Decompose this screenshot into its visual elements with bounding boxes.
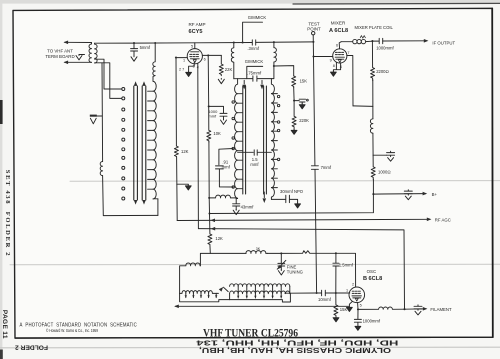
damping resistor over plate coil: [360, 36, 365, 39]
tube V1 RF AMP 6CY5 envelope: [187, 49, 202, 64]
capacitor C .91mmf padder: [216, 149, 234, 188]
resistor R 2200ohm: [371, 41, 375, 81]
node: choke left on bus: [233, 41, 235, 43]
wire: filament bus: [198, 229, 404, 310]
wire: long left return line down: [101, 63, 104, 162]
svg-text:22K: 22K: [225, 67, 233, 72]
arrow to VHF ant (upper): [64, 41, 69, 45]
resistor R 10K: [207, 106, 211, 142]
svg-text:5: 5: [360, 303, 362, 307]
transformer T1 primary winding: [89, 43, 92, 63]
V2 plate pin6 lead: [339, 42, 341, 49]
wire: rail up to RF strip bottom: [157, 199, 159, 216]
wire: IF output with arrow: [383, 40, 427, 42]
V2 grid pin9 lead: [314, 56, 333, 58]
capacitor C 5mmf top lead: [133, 43, 135, 48]
svg-text:1: 1: [183, 59, 185, 63]
resistor R 1000ohm: [371, 155, 375, 180]
joint arrow on filament bus: [211, 227, 216, 231]
coil L RF strip top choke: [153, 43, 155, 76]
top edge dark line right half: [293, 2, 500, 5]
svg-text:RF AMP: RF AMP: [188, 22, 205, 27]
svg-text:GIMMICK: GIMMICK: [248, 15, 267, 20]
capacitor C 1.5mmf between strips: [238, 150, 272, 156]
node 1000mmf bypass tap: [208, 105, 210, 107]
svg-text:SET 438 FOLDER 2: SET 438 FOLDER 2: [4, 170, 11, 256]
svg-text:12K: 12K: [215, 236, 223, 241]
svg-text:IF OUTPUT: IF OUTPUT: [432, 40, 455, 45]
coil L RF plate choke left: [231, 43, 234, 79]
svg-text:220K: 220K: [299, 118, 309, 123]
ground at antenna primary tap: [79, 54, 85, 56]
V1 cathode lead + ground: [189, 63, 195, 72]
coil RF channel strip winding: [153, 77, 158, 199]
V3 grid lead: [348, 292, 351, 294]
svg-text:FILAMENT: FILAMENT: [430, 307, 452, 312]
svg-text:mmf: mmf: [250, 162, 259, 167]
node choke to 15K: [273, 65, 275, 67]
wire: RF AGC bus: [177, 219, 430, 220]
capacitor C 7mmf in test line: [311, 166, 318, 293]
coil L mixer grid choke right: [274, 42, 277, 66]
svg-text:43mmf: 43mmf: [241, 204, 255, 209]
svg-text:MIXER PLATE COIL: MIXER PLATE COIL: [355, 25, 394, 30]
resistor R 12K osc feed: [208, 229, 212, 254]
right section vertical taps: [230, 286, 282, 299]
capacitor C 5mmf plates: [131, 49, 138, 51]
svg-text:.75mmf: .75mmf: [247, 71, 262, 76]
node bus A at RF plate line: [208, 212, 210, 214]
fold line upper: [70, 180, 500, 183]
svg-text:6: 6: [204, 57, 206, 61]
capacitor C 1000mmf cathode: [354, 309, 361, 325]
V1 plate pin6 lead to right: [202, 54, 221, 56]
svg-text:8: 8: [333, 64, 335, 68]
wire: antenna lead upper to term board: [65, 41, 92, 43]
feedthrough capacitor at B+: [404, 190, 412, 200]
svg-text:.3mmf: .3mmf: [247, 46, 259, 51]
svg-text:7mmf: 7mmf: [321, 165, 332, 170]
right strip contact circles: [277, 95, 279, 160]
svg-text:30mmf NPO: 30mmf NPO: [280, 189, 304, 194]
wire: B+ lead right: [373, 193, 425, 196]
V1 grid1 pin1 lead to left: [176, 57, 187, 59]
fold line bottom page edge: [0, 346, 500, 349]
wire: 15K feed from choke: [274, 66, 294, 76]
node filament at osc line: [403, 308, 405, 310]
right section output lead: [285, 286, 290, 293]
resistor R 12K AGC: [174, 146, 178, 156]
wire: AGC vertical from RF grid: [175, 58, 177, 146]
svg-text:mmf: mmf: [208, 114, 217, 119]
wire: osc grid lead: [290, 292, 321, 294]
svg-text:5: 5: [191, 44, 193, 48]
wire: strip top link with .75mmf: [234, 66, 274, 79]
oscillator coil assembly left section: [180, 291, 219, 294]
svg-text:12K: 12K: [181, 149, 189, 154]
svg-text:B+: B+: [432, 192, 438, 197]
border frame right edge emphasis: [491, 8, 494, 337]
node IF junction: [371, 40, 373, 42]
feedthrough capacitor at 155: [373, 154, 387, 156]
capacitor C .3mmf in grid bus: [252, 40, 255, 45]
wire: B+ column upper: [372, 80, 374, 119]
wire: antenna lead lower to term board: [65, 61, 92, 63]
svg-text:GIMMICK: GIMMICK: [245, 59, 264, 64]
resistor R 15K osc: [334, 293, 338, 316]
resistor R 22K: [219, 55, 223, 75]
border frame bottom edge emphasis: [15, 336, 493, 339]
coil osc tank left link: [180, 263, 201, 293]
svg-text:2 7: 2 7: [179, 68, 184, 72]
svg-text:FOLDER 2: FOLDER 2: [15, 343, 48, 350]
svg-text:1000mmf: 1000mmf: [376, 45, 394, 50]
long slug rail with arrow: [175, 305, 349, 307]
joint arrow on AGC bus: [210, 219, 215, 223]
svg-text:B 6CL8: B 6CL8: [363, 276, 382, 282]
svg-text:2200Ω: 2200Ω: [376, 69, 389, 74]
V2 pin7 lead right: [347, 56, 353, 106]
capacitor C 43mmf strip bottom: [233, 199, 240, 210]
svg-text:RF AGC: RF AGC: [435, 218, 451, 223]
V3 cathode pin5 lead: [357, 303, 359, 310]
slug channel right strip: [264, 86, 267, 194]
wire: B+ column to bus A: [210, 179, 374, 213]
wire: filament lead right: [405, 308, 427, 310]
tuning slug bar 1: [134, 86, 138, 200]
svg-text:5mmf: 5mmf: [140, 45, 151, 50]
capacitor C 10mmf osc coupling: [322, 290, 349, 296]
node: RF plate to 22K junction: [207, 54, 209, 56]
svg-text:TERM BOARD: TERM BOARD: [45, 54, 74, 59]
node grid leak junction: [335, 292, 337, 294]
arrow B+: [423, 192, 428, 196]
tube V2 MIXER A 6CL8 envelope: [333, 49, 347, 63]
slug channel left strip: [243, 86, 246, 194]
left section tap leads: [186, 293, 216, 297]
wire: secondary bottom to switch contact B: [95, 63, 122, 99]
coil filament choke: [358, 307, 405, 309]
gimmick 1 bracket: [243, 22, 263, 42]
V1 heater lead down: [197, 63, 199, 66]
fold line middle: [10, 263, 500, 266]
node fine tuning tap: [280, 252, 282, 254]
transformer T1 secondary winding: [95, 43, 98, 63]
wire: bus after .3mmf: [256, 41, 314, 44]
svg-text:1000Ω: 1000Ω: [378, 170, 391, 175]
svg-text:1: 1: [346, 288, 348, 292]
gimmick 2 bracket: [247, 66, 263, 78]
svg-text:VHF TUNER CL25796: VHF TUNER CL25796: [203, 328, 298, 340]
chassis ground symbol left: [90, 115, 97, 117]
node test line at mixer grid: [312, 55, 314, 57]
V2 cathode leads + ground: [333, 62, 340, 71]
svg-text:9: 9: [330, 58, 332, 62]
node: 5mmf tap: [133, 42, 135, 44]
test point terminal: [312, 32, 315, 35]
capacitor C 30mmf NPO osc strip bottom: [271, 195, 297, 203]
node B+ tap: [372, 193, 374, 195]
slug arrow right strip bottom: [263, 192, 265, 198]
svg-text:OLYMPIC CHASSIS HA, HAU, HB, H: OLYMPIC CHASSIS HA, HAU, HB, HBU,: [199, 346, 391, 355]
wire: secondary tap to switch contact A: [95, 59, 122, 89]
osc coil tap arrow specks: [185, 295, 283, 298]
node grid coil at B+ line: [208, 197, 210, 199]
left strip tap stubs with arrows: [238, 94, 243, 189]
AGC ground stub: [177, 183, 189, 186]
wire: RF bus tube to gimmick junction: [195, 42, 253, 44]
svg-text:PAGE 11: PAGE 11: [1, 310, 8, 339]
slug arrow right strip top: [261, 80, 263, 84]
fine tuning trimmer: [277, 253, 286, 269]
svg-text:15K: 15K: [300, 78, 308, 83]
capacitor C .75mmf plates: [253, 76, 257, 81]
wire: return line to bottom rail: [103, 176, 158, 216]
node 1.5mmf tap: [335, 252, 337, 254]
wire: heater line from V1: [197, 67, 200, 229]
svg-text:7: 7: [347, 51, 349, 55]
svg-text:POINT: POINT: [307, 27, 321, 32]
capacitor C 1000mmf IF coupling: [372, 38, 382, 43]
wire: RF plate B+ vertical: [207, 55, 210, 106]
arrow RF AGC: [427, 218, 432, 222]
node AGC takeoff: [175, 57, 177, 59]
coil osc plate tank: [246, 251, 267, 254]
coil mixer plate: [341, 39, 372, 43]
oscillator coil assembly right section bottom row: [230, 291, 290, 294]
svg-text:TO VHF ANT: TO VHF ANT: [47, 49, 73, 54]
coil grid return to B+ line: [209, 195, 236, 198]
capacitor C 1000mmf bypass: [209, 106, 227, 119]
slug arrow left strip: [243, 80, 245, 84]
top page edge gray band: [0, 0, 500, 4]
left section bottom rail: [180, 293, 230, 301]
switch wafer contact circles: [122, 88, 125, 201]
svg-text:1.5mmf: 1.5mmf: [339, 263, 354, 268]
V1 internals: [190, 52, 199, 59]
RF strip tap stubs: [148, 91, 153, 189]
wire: column to feedthru tap: [372, 133, 374, 155]
V3 internals: [352, 291, 361, 298]
left strip contact circles: [232, 101, 234, 188]
svg-text:MIXER: MIXER: [331, 21, 346, 26]
coil L ant return: [100, 162, 102, 176]
svg-text:3K: 3K: [256, 247, 261, 251]
right strip tap stubs: [271, 94, 277, 188]
resistor R 15K: [292, 76, 296, 88]
feedthrough capacitor filament: [414, 305, 422, 315]
wire: RF plate line mid: [208, 141, 211, 228]
resistor R 220K: [292, 101, 296, 130]
svg-text:4: 4: [340, 65, 342, 69]
rotor arrow osc switch: [223, 287, 228, 291]
V2 internals: [335, 52, 344, 59]
svg-text:1000mmf: 1000mmf: [363, 318, 381, 323]
svg-text:10mmf: 10mmf: [318, 297, 332, 302]
node: choke tap on grid bus: [154, 42, 156, 44]
svg-text:OSC: OSC: [367, 269, 377, 274]
node test line at osc grid: [316, 292, 318, 294]
node cathode junction: [357, 308, 359, 310]
node: choke right on bus: [273, 41, 275, 43]
wire: test point line down: [313, 35, 315, 165]
svg-text:6CY5: 6CY5: [189, 29, 203, 35]
wire: AGC vertical lower: [176, 157, 179, 221]
arrow to VHF ant (lower): [64, 61, 69, 65]
right section bottom rail: [230, 293, 291, 302]
svg-text:3: 3: [193, 64, 195, 68]
svg-text:2: 2: [352, 283, 354, 287]
svg-text:TUNING: TUNING: [287, 269, 303, 274]
V3 ground lead: [349, 301, 352, 306]
wire: tank top right with kink: [267, 251, 355, 287]
node trimmer junction: [293, 100, 295, 102]
node test line at grid bus: [312, 41, 314, 43]
bottom-left dark corner mark: [0, 350, 3, 359]
wire: osc tank top: [200, 253, 246, 265]
svg-text:© Howard W. Sams & Co., Inc. 1: © Howard W. Sams & Co., Inc. 1959: [46, 328, 98, 333]
arrow FILAMENT: [423, 307, 428, 311]
wire: RF grid bus to tube pin5: [134, 42, 195, 44]
svg-text:10K: 10K: [213, 131, 221, 136]
trimmer capacitor to ground: [294, 99, 308, 103]
left page edge gray strip: [0, 3, 2, 359]
wire: 15K to junction: [293, 88, 295, 101]
coil B+ decoupling choke: [370, 119, 373, 133]
left edge black bar: [0, 100, 3, 124]
tuning slug bar 2: [142, 86, 146, 200]
oscillator coil assembly right section top row: [230, 284, 290, 287]
tube V3 OSC B 6CL8 envelope: [349, 287, 365, 303]
svg-text:A 6CL8: A 6CL8: [329, 28, 348, 34]
capacitor C 1.5mmf osc: [333, 253, 339, 293]
V1 grid pin5 lead: [194, 43, 196, 49]
capacitor C 5mmf bottom lead + ground: [133, 51, 135, 56]
svg-text:mmf: mmf: [222, 164, 231, 169]
wire: osc plate feed from mixer pin7: [353, 105, 373, 108]
svg-text:6: 6: [336, 44, 338, 48]
coil mixer-grid channel strip (left): [235, 79, 238, 199]
wire: secondary top to RF grid bus: [95, 42, 134, 44]
coil osc channel strip (right): [271, 79, 274, 200]
